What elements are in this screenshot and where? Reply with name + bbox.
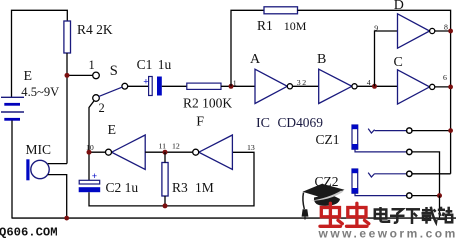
inverter E (points left) [112,135,146,169]
svg-text:IC: IC [256,116,270,131]
watermark site name char dian [375,207,389,222]
resistor R2 [187,83,221,89]
junction dot E input node [163,150,168,155]
junction dot MIC ground [64,216,69,221]
wire: C1 to R2 [162,85,187,87]
wire: CZ1 sleeve line [355,149,407,152]
wire: MIC top terminal [48,163,67,165]
inverter A [255,69,287,103]
watermark graduation cap [302,184,345,220]
svg-text:www.eeworm.com: www.eeworm.com [318,227,456,240]
wire: pole to C1 [128,85,149,87]
switch S contact 2 [93,95,100,102]
wire: R1 right to top-right corner down right rail [298,10,451,174]
wire: E input to F output [145,151,192,153]
battery E [1,97,24,119]
watermark chongchong red character 1 [320,203,342,226]
wire: switch contact 2 down to E output node [89,101,94,181]
jack CZ1 [352,125,359,150]
switch S pole [122,83,128,89]
junction dot node B/C/D [372,84,377,89]
wire: CZ2 sleeve to ground [412,195,440,197]
svg-text:10: 10 [86,143,94,152]
terminal circle CZ2 sleeve [407,193,412,198]
svg-text:4: 4 [367,78,371,87]
svg-text:1: 1 [233,79,237,88]
wire: CZ2 sleeve line [355,193,407,195]
svg-text:R2 100K: R2 100K [183,96,232,111]
resistor R3 [162,163,168,197]
wire: right rail turn into CZ2 tip [412,173,451,175]
svg-text:4.5~9V: 4.5~9V [21,85,59,99]
junction dot E output node [87,150,92,155]
bubble F output [193,149,199,155]
wire: node to switch contact 1 [67,74,93,76]
node junction dot (R4/MIC/S1) [65,73,70,78]
bubble D output [430,28,435,33]
svg-text:13: 13 [247,143,255,152]
resistor R1 [264,7,298,14]
microphone MIC [26,159,49,180]
switch S contact 1 [93,72,100,79]
svg-text:2: 2 [99,101,105,115]
wire: B output to C input [357,85,399,87]
watermark site name char xia [406,209,420,224]
svg-text:D: D [394,0,404,13]
svg-text:A: A [250,52,261,67]
svg-text:MIC: MIC [26,142,52,157]
wire: D output to right rail [435,30,451,32]
wire: R4 bottom down to MIC top terminal [66,53,68,164]
wire: R2 to inverter A input [221,85,255,87]
svg-text:6: 6 [443,73,447,82]
svg-text:C2 1u: C2 1u [106,180,139,195]
switch S arm [99,87,122,96]
svg-text:8: 8 [444,23,448,32]
svg-text:+: + [143,78,148,88]
svg-text:B: B [317,52,326,67]
wire: feedback vertical up to R1 [231,10,264,86]
wire: node to R3 top [164,152,166,162]
jack CZ1 tip spring contact [368,129,374,133]
capacitor C1 (electrolytic) [143,77,162,96]
terminal circle CZ1 tip [407,128,412,133]
wire: E output to node [89,151,106,153]
terminal circle CZ1 sleeve [407,149,412,154]
bubble B output [352,84,357,89]
junction dot CZ2 sleeve [437,193,442,198]
watermark site name char zai [422,207,437,224]
svg-text:E: E [24,69,33,84]
wire: CZ1 tip to right rail [412,130,451,132]
junction dot C output on rail [448,85,453,90]
svg-text:2: 2 [302,78,306,87]
watermark chongchong red character 2 [347,203,369,226]
junction dot node R2/A/R1 [229,84,234,89]
wire: battery top lead and top-left rail to R4 [12,10,68,97]
wire: A output to B input [293,85,319,87]
svg-text:F: F [196,115,204,130]
bubble A output [287,84,292,89]
watermark site name char zhan [437,207,452,223]
junction dot CZ1 tip on rail [448,128,453,133]
wire: C2 bottom to inner rail to F input [89,152,254,206]
svg-text:R1: R1 [257,18,273,33]
svg-text:1: 1 [89,58,95,72]
wire: R3 bottom to inner rail [164,196,166,206]
wire: ground rail (bottom) [12,217,456,219]
inverter D [398,14,430,48]
svg-text:1M: 1M [195,180,214,195]
svg-text:C1: C1 [137,57,153,72]
svg-text:11: 11 [159,142,167,151]
resistor R4 [64,21,71,53]
inverter B [319,69,352,103]
svg-text:C: C [394,55,403,70]
inverter C [398,70,430,104]
wire: battery bottom lead [11,121,13,219]
svg-text:E: E [108,123,117,138]
wire: CZ1 sleeve to CZ2 chain [412,152,440,196]
svg-text:12: 12 [172,142,180,151]
wire: chain down to ground rail [439,196,441,219]
bubble E output [106,149,112,155]
svg-text:S: S [110,63,118,79]
svg-text:3: 3 [297,78,301,87]
wire: C output to right rail [435,86,451,88]
svg-text:10M: 10M [284,19,307,33]
jack CZ2 tip spring contact [368,173,374,177]
capacitor C2 (electrolytic) [79,172,101,192]
junction dot D output on rail [448,29,453,34]
watermark site name char zi [390,209,405,222]
svg-text:1u: 1u [158,57,172,72]
svg-text:CD4069: CD4069 [278,115,324,130]
svg-text:Q606.COM: Q606.COM [0,226,58,240]
wire: CZ2 tip line to circle [375,173,407,175]
inverter F (points left) [199,135,233,169]
junction dot R3 bottom [163,203,168,208]
wire: MIC bottom terminal to ground [48,175,67,219]
wire: node up to D input [375,31,398,86]
svg-text:CZ1: CZ1 [316,132,340,147]
svg-text:R3: R3 [172,180,188,195]
terminal circle CZ2 tip [407,171,412,176]
bubble C output [430,84,435,89]
wire: CZ1 tip line to circle [375,130,407,132]
svg-text:9: 9 [374,23,378,32]
svg-text:R4 2K: R4 2K [77,22,113,37]
jack CZ2 [352,169,359,194]
